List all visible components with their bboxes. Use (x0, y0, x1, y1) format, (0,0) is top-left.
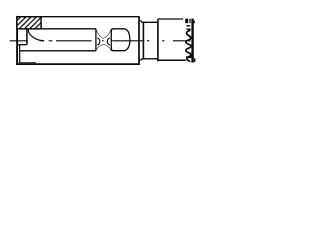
body left edge (16, 16, 18, 65)
thread block (185, 19, 191, 24)
thread relief dashes (186, 26, 190, 29)
stud end bar (191, 19, 193, 63)
internal fillet arc (28, 30, 44, 41)
stud end nub top (194, 21, 195, 24)
revolved section barrel (111, 29, 129, 51)
inner shoulder bottom (17, 44, 27, 46)
sleeve face (157, 19, 159, 61)
stud bottom step (186, 56, 194, 58)
right break line (103, 29, 111, 51)
stud end nub bottom (194, 58, 196, 62)
bore top line (41, 28, 96, 30)
body bottom edge (16, 63, 139, 65)
body right face (138, 16, 140, 65)
hatched wall section box (17, 17, 41, 29)
centerline (10, 40, 191, 42)
left chamfer line (19, 44, 21, 63)
bore bottom line (20, 50, 96, 52)
inner shoulder vertical (26, 29, 28, 45)
stud bottom edge (158, 59, 186, 61)
break squiggle (186, 30, 191, 62)
left break line (96, 29, 104, 51)
stud top edge (158, 18, 183, 20)
right step profile bottom (139, 59, 142, 61)
collar face (142, 22, 144, 59)
right step profile top (139, 20, 142, 22)
left chamfer foot (20, 62, 36, 64)
body top edge (16, 16, 138, 18)
